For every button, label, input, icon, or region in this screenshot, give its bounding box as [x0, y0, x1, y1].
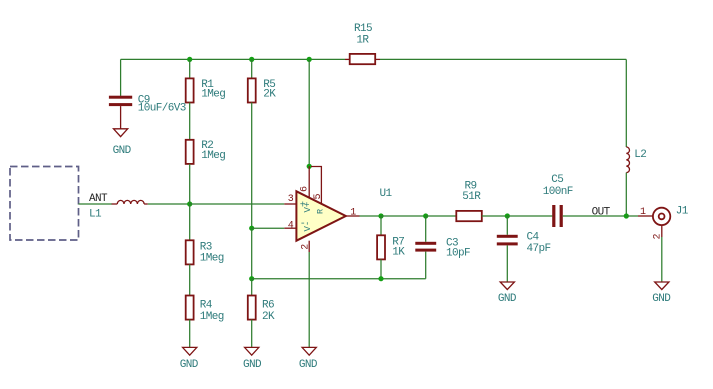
op-amp U1 pin 5 — [311, 167, 321, 205]
resistor R6 — [248, 296, 256, 320]
junction R7 top — [378, 213, 383, 218]
op-amp minus input mark — [300, 219, 306, 230]
label R4 — [200, 300, 213, 312]
svg-text:C5: C5 — [551, 174, 563, 186]
junction R7 bottom — [378, 276, 383, 281]
svg-text:1Meg: 1Meg — [200, 253, 224, 265]
svg-text:V+: V+ — [303, 202, 313, 213]
label R5 — [263, 79, 275, 91]
connector J1 pin 2 stub — [661, 225, 663, 237]
junction top of R1 — [187, 57, 192, 62]
svg-text:GND: GND — [113, 145, 132, 157]
value 1Meg — [200, 311, 224, 323]
ground under pin 2 — [299, 347, 318, 371]
op-amp V+ mark — [303, 202, 313, 213]
wire feedback node to R6 — [251, 279, 253, 296]
svg-text:6: 6 — [299, 186, 310, 192]
wire R6 to ground — [251, 320, 253, 348]
op-amp U1 body — [296, 191, 345, 240]
capacitor C9 — [109, 59, 132, 128]
junction pin5 pin6 node — [307, 164, 312, 169]
op-amp plus input mark — [300, 200, 306, 211]
value 1Meg — [201, 150, 225, 162]
wire OUT node to J1 — [626, 215, 638, 217]
wire J1 pin2 to ground — [661, 237, 663, 282]
feedback wire — [252, 278, 426, 280]
resistor R2 — [186, 140, 194, 164]
output wire from pin 1 — [360, 215, 382, 217]
pin number 4 — [288, 220, 294, 231]
svg-text:GND: GND — [652, 293, 671, 305]
value 1Meg — [201, 89, 225, 101]
junction top of supply branch — [307, 57, 312, 62]
top bus wire — [121, 59, 627, 147]
svg-text:1Meg: 1Meg — [201, 89, 225, 101]
svg-text:2K: 2K — [262, 311, 275, 323]
resistor R3 — [186, 240, 194, 264]
pin number 6 — [299, 186, 310, 192]
ground under C4 — [498, 282, 517, 305]
wire pin4 node down to feedback node — [251, 228, 253, 279]
svg-text:GND: GND — [243, 359, 262, 371]
op-amp V- mark — [303, 221, 313, 232]
wire R3 to R4 — [189, 264, 191, 295]
pin number 2 — [300, 244, 311, 250]
value 1K — [392, 247, 405, 259]
label C3 — [446, 237, 458, 249]
pin number 1 of J1 — [640, 207, 646, 218]
label J1 — [676, 206, 689, 218]
value 10pF — [446, 247, 470, 259]
label R6 — [262, 300, 274, 312]
connector J1 pin 1 stub — [638, 215, 653, 217]
net label ANT — [89, 193, 108, 205]
label R2 — [201, 140, 213, 152]
pin number 5 — [313, 194, 324, 200]
ground under R4 — [180, 347, 199, 371]
op-amp U1 pin 6 — [308, 166, 310, 198]
label L1 — [89, 208, 102, 220]
pin number 1 — [350, 208, 356, 219]
label C5 — [551, 174, 563, 186]
connector J1 — [653, 208, 670, 225]
svg-text:ANT: ANT — [89, 193, 108, 205]
label U1 — [380, 188, 393, 200]
wire R5 to pin4 node — [251, 103, 253, 229]
capacitor C3 — [415, 216, 436, 279]
svg-text:10uF/6V3: 10uF/6V3 — [138, 103, 186, 115]
svg-text:R4: R4 — [200, 300, 213, 312]
value 47pF — [527, 243, 551, 255]
svg-text:4: 4 — [288, 220, 294, 231]
wire box to L1 — [79, 203, 113, 205]
label R7 — [392, 237, 404, 249]
resistor R4 — [186, 296, 194, 320]
value 10uF/6V3 — [138, 103, 186, 115]
junction OUT node — [624, 213, 629, 218]
junction pin4 node — [249, 226, 254, 231]
junction feedback node at R6 — [249, 276, 254, 281]
wire R4 to ground — [189, 320, 191, 348]
wire L1 to node A — [148, 203, 190, 205]
wire C3 to R9 — [426, 215, 457, 217]
pin number 2 of J1 — [653, 234, 664, 240]
net label OUT — [592, 207, 611, 219]
pin number 3 — [288, 194, 294, 205]
svg-text:R6: R6 — [262, 300, 274, 312]
junction C4 top — [505, 213, 510, 218]
label R15 — [354, 23, 372, 35]
label C9 — [138, 94, 150, 106]
svg-text:1K: 1K — [392, 247, 405, 259]
wire supply branch down — [308, 59, 310, 166]
antenna dashed box — [10, 167, 79, 241]
resistor R7 — [377, 216, 385, 279]
svg-text:L1: L1 — [89, 208, 102, 220]
op-amp U1 pin 3 stub — [284, 203, 296, 205]
svg-text:R15: R15 — [354, 23, 372, 35]
svg-text:2: 2 — [300, 244, 311, 250]
op-amp U1 pin 1 stub — [346, 215, 360, 217]
wire pin2 to ground — [308, 252, 310, 347]
svg-text:1: 1 — [350, 208, 356, 219]
capacitor C5 — [552, 205, 563, 227]
value 2K — [262, 311, 275, 323]
wire R2 to node A — [189, 164, 191, 204]
svg-text:5: 5 — [313, 194, 324, 200]
label R3 — [200, 241, 212, 253]
svg-text:3: 3 — [288, 194, 294, 205]
ground under R6 — [243, 347, 262, 371]
value 2K — [263, 89, 276, 101]
inductor L2 — [626, 147, 629, 173]
svg-text:U1: U1 — [380, 188, 393, 200]
svg-text:2K: 2K — [263, 89, 276, 101]
label L2 — [634, 149, 646, 161]
svg-text:R: R — [316, 209, 326, 214]
svg-text:10pF: 10pF — [446, 247, 470, 259]
ground under C9 — [113, 129, 132, 157]
svg-text:47pF: 47pF — [527, 243, 551, 255]
ground under J1 — [652, 282, 671, 305]
value 1R — [356, 35, 369, 47]
svg-text:1: 1 — [640, 207, 646, 218]
svg-text:GND: GND — [299, 359, 318, 371]
resistor R9 — [456, 211, 482, 221]
svg-text:V-: V- — [303, 221, 313, 232]
wire C5 to OUT node — [563, 215, 627, 217]
wire R1 to R2 — [189, 103, 191, 140]
svg-text:100nF: 100nF — [543, 186, 573, 198]
svg-text:C4: C4 — [527, 231, 540, 243]
junction node A — [187, 201, 192, 206]
output wire to C3 — [381, 215, 426, 217]
resistor R15 — [345, 54, 380, 64]
value 1Meg — [200, 253, 224, 265]
svg-text:1Meg: 1Meg — [200, 311, 224, 323]
label R1 — [201, 79, 214, 91]
wire node A to R3 — [189, 204, 191, 240]
wire node A to opamp pin3 — [190, 203, 285, 205]
resistor R1 — [186, 59, 194, 102]
op-amp U1 pin 4 stub — [284, 227, 296, 229]
svg-text:J1: J1 — [676, 206, 689, 218]
wire L2 to OUT node — [625, 173, 627, 216]
wire R9 to C4 node — [482, 215, 508, 217]
svg-text:51R: 51R — [462, 191, 481, 203]
label R9 — [465, 180, 477, 192]
capacitor C4 — [497, 216, 518, 282]
svg-text:1R: 1R — [356, 35, 369, 47]
svg-text:GND: GND — [180, 359, 199, 371]
value 51R — [462, 191, 481, 203]
inductor L1 — [112, 200, 148, 204]
svg-text:OUT: OUT — [592, 207, 611, 219]
junction C3 top — [423, 213, 428, 218]
wire C4 node to C5 — [507, 215, 552, 217]
op-amp U1 pin 2 stub — [308, 241, 310, 252]
wire pin4 node to opamp pin4 — [252, 227, 285, 229]
label C4 — [527, 231, 540, 243]
svg-text:L2: L2 — [634, 149, 646, 161]
value 100nF — [543, 186, 573, 198]
svg-text:1Meg: 1Meg — [201, 150, 225, 162]
svg-text:GND: GND — [498, 293, 517, 305]
op-amp bias mark — [316, 209, 326, 214]
resistor R5 — [248, 59, 256, 102]
junction top of R5 — [249, 57, 254, 62]
